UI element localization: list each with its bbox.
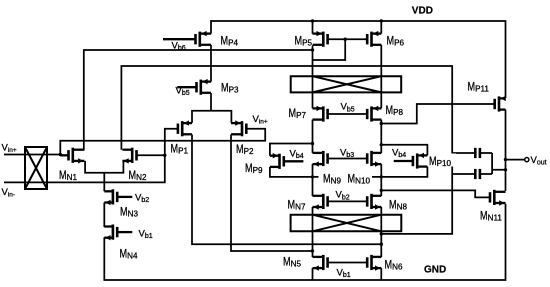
wire MP5/MP6 gate tie and diode connection [313, 39, 368, 60]
wire MN5 source to GND [312, 268, 314, 280]
wire MP2 drain fold [231, 135, 313, 252]
label MP1 [171, 143, 189, 156]
node rail-left junction [311, 175, 314, 178]
transistor MP5 [313, 31, 328, 47]
chopper box 2 [291, 215, 402, 232]
node A junction at MP5 drain [311, 48, 314, 51]
node MN8 source junction [380, 232, 383, 235]
label MP6 [387, 35, 405, 48]
label MN4 [120, 248, 138, 261]
wire right cascode rail MP6 drain to MP8 source [380, 45, 382, 109]
wire MP1 drain fold [192, 135, 381, 245]
transistor MN9 [313, 151, 328, 167]
label MN2 [129, 169, 147, 182]
wire Vout tap [506, 158, 529, 162]
capacitor C2 [452, 169, 492, 179]
label Vb5 at MP7/MP8 [341, 102, 355, 114]
label Vb5 at MP3 [176, 85, 190, 97]
transistor MN10 [367, 151, 381, 167]
label MN3 [120, 206, 138, 219]
label MN5 [283, 256, 301, 269]
transistor MP11 [495, 96, 506, 112]
label Vb4 at MP9 [290, 148, 304, 160]
label Vb2 at MN7/MN8 [336, 190, 350, 202]
wire MP8 drain to MN10 drain [380, 120, 382, 153]
transistor MN5 [313, 255, 328, 271]
node MP1 drain junction [380, 243, 383, 246]
wire MP7/MP8 gate tie [328, 113, 368, 115]
node Vin- junction [163, 154, 166, 157]
wire MP4 drain to MP3 source [210, 45, 212, 82]
label MN11 [480, 210, 502, 223]
label MN10 [346, 170, 372, 186]
label MP8 [386, 104, 404, 117]
label MP7 [289, 107, 307, 120]
node MP5 gate-drain tie [344, 38, 347, 41]
wire Vin- input net [4, 129, 178, 183]
label MN8 [389, 199, 407, 212]
label Vin- [2, 187, 16, 199]
wire MP5 source [312, 21, 314, 34]
label MP4 [221, 35, 239, 48]
wire MN9/MN10 gate tie [328, 158, 368, 160]
wire node A: MN1 drain to MP5 drain [84, 50, 313, 150]
node MP11 gate tap [380, 122, 383, 125]
label Vin+ at MP2 gate [253, 114, 268, 126]
transistor MN2 [122, 148, 136, 164]
wire output rail MP11 drain to MN11 drain [505, 110, 507, 191]
transistor MP7 [313, 106, 328, 122]
wire MP6 source [380, 21, 382, 34]
svg-text:VDD: VDD [412, 6, 433, 17]
transistor MN11 [490, 190, 506, 206]
node rail-right junction [380, 175, 383, 178]
label MP11 [468, 81, 490, 94]
transistor MP3 [177, 79, 211, 95]
chopper box 1 [291, 76, 402, 92]
label Vb4 at MP10 [392, 148, 406, 160]
wire MN10 source [380, 164, 382, 177]
node MP2 drain junction [311, 249, 314, 252]
label MP2 [236, 143, 254, 156]
wire MN3 source to MN4 drain [103, 203, 105, 228]
transistor MP6 [367, 31, 381, 47]
label Vb1 at MN5/MN6 [337, 268, 351, 280]
wire Vin+ input net [4, 129, 265, 155]
wire MN9 source [312, 164, 314, 177]
label VDD [412, 6, 433, 17]
wire MN1/MN2 common source [85, 161, 123, 191]
wire MN7/MN8 gate tie [328, 200, 368, 202]
wire MP8 drain to MP11 gate [381, 104, 494, 124]
wire MP9 source tap from left rail [270, 144, 313, 156]
label Vin+ [2, 143, 17, 155]
label MN7 [288, 199, 306, 212]
wire bottom cascode rail: MP9 drain, MN9/MN10 sources, MP10 drain [270, 167, 428, 177]
wire MN8 source to MN6 drain [380, 207, 382, 257]
wire MN6 source to GND [380, 268, 382, 280]
transistor MP8 [367, 106, 381, 122]
transistor MP10 [394, 153, 428, 169]
label Vb2 at MN3 [135, 193, 149, 205]
label Vout [531, 155, 547, 167]
transistor MN8 [367, 194, 381, 210]
label MP10 [429, 154, 457, 169]
wire MN5/MN6 gate tie [328, 262, 368, 264]
label Vb3 [340, 147, 354, 159]
wire capacitors to output rail [492, 153, 505, 174]
label MN1 [59, 169, 77, 182]
node MP10 source tap [380, 143, 383, 146]
label MP5 [295, 35, 313, 48]
wire MP3 drain to MP1/MP2 common source bar [192, 93, 231, 123]
transistor MN7 [313, 194, 328, 210]
wire MN7 drain [312, 177, 314, 196]
label MP9 [245, 162, 263, 175]
transistor MN6 [367, 255, 381, 271]
wire MN7 source to MN5 drain [312, 207, 314, 257]
node output junctions [504, 158, 507, 172]
transistor MP2 [231, 120, 246, 136]
capacitor C1 [452, 148, 492, 158]
node Vin+ junction [59, 153, 62, 156]
label Vb6 [172, 41, 186, 53]
transistor MN3 [104, 189, 132, 205]
label MN6 [385, 259, 403, 272]
transistor MN1 [60, 148, 84, 164]
wire MN8 drain and MN11 gate feed [381, 177, 490, 198]
wire VDD rail [211, 21, 506, 98]
transistor MN4 [104, 225, 132, 241]
wire MP10 source tap from right rail [381, 145, 427, 156]
node MP9 source tap [311, 142, 314, 145]
wire left cascode rail MP5 drain to MP7 source [312, 45, 314, 109]
svg-text:GND: GND [424, 264, 446, 275]
node VDD taps [311, 19, 383, 22]
label MN9 [319, 170, 347, 186]
label GND [424, 264, 446, 275]
wire node B: MN2 drain to MN8 source via x=452 [121, 66, 452, 234]
node MN11 gate tap [380, 189, 383, 192]
transistor MP1 [178, 120, 192, 136]
label MP3 [221, 82, 239, 95]
transistor MP9 [270, 153, 304, 169]
input chopper box [25, 147, 47, 189]
wire GND rail [104, 204, 505, 280]
wire MP7 drain to MN9 drain [312, 120, 314, 153]
label Vb1 at MN4 [139, 229, 153, 241]
transistor MP4 [163, 31, 211, 47]
